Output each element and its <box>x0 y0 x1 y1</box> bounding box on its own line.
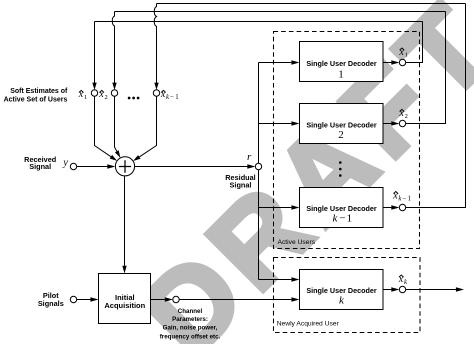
arrowhead y into summer <box>107 164 115 168</box>
svg-text:r: r <box>247 151 252 163</box>
arrowhead into decoder k (upper input) <box>291 277 299 281</box>
arrowhead into decoder k-1 <box>291 205 299 209</box>
arrowhead into node xhat2 <box>112 83 116 90</box>
arrowhead decoder2 output <box>391 121 399 125</box>
node terminal xhat2 <box>111 90 117 96</box>
terminal xhat1 output <box>399 59 405 65</box>
svg-text:Signal: Signal <box>29 162 51 171</box>
arrowhead into node r <box>247 164 255 168</box>
wire residual to decoder2 <box>259 123 292 125</box>
label received signal <box>24 155 56 171</box>
wire decoder k output <box>383 289 391 291</box>
terminal xhat2 output <box>399 120 405 126</box>
wire xhat1 down into summer <box>95 96 111 156</box>
wire initial acquisition output <box>151 299 165 301</box>
arrowhead decoder1 output <box>391 60 399 64</box>
svg-text:Signals: Signals <box>38 299 64 308</box>
node terminal xhat k-1 <box>153 90 159 96</box>
arrowhead decoder k output <box>391 287 399 291</box>
label xhat k-1 left <box>160 89 179 101</box>
wire summer to residual node r <box>135 166 248 168</box>
arrowhead xhat k-1 into summer <box>133 155 141 161</box>
svg-text:1: 1 <box>408 195 411 202</box>
label xhat1 left <box>78 89 88 101</box>
wire decoder2 output <box>383 123 391 125</box>
wire feedback top y=11.5 (decoder2 to xhat2) <box>115 11 446 13</box>
label xhat k-1 output <box>392 190 411 202</box>
svg-text:1: 1 <box>338 68 344 80</box>
summer (adder) circle <box>115 157 134 176</box>
wire residual trunk vertical <box>258 63 260 280</box>
label xhat1 output <box>398 47 407 59</box>
svg-text:1: 1 <box>175 94 178 101</box>
block single user decoder k <box>300 270 384 310</box>
svg-text:1: 1 <box>405 52 408 59</box>
wire xhat k-1 down into summer <box>139 96 156 157</box>
watermark DRAFT <box>122 0 474 344</box>
terminal pilot signals <box>70 296 76 302</box>
label soft estimates <box>4 88 68 104</box>
label block decoder k <box>306 286 377 307</box>
arrowhead into node xhat k-1 <box>154 83 158 90</box>
wire feedback top y=21 (decoder1 to xhat1) <box>95 21 423 23</box>
svg-text:Newly Acquired User: Newly Acquired User <box>277 320 340 327</box>
arrowhead into decoder1 <box>291 60 299 64</box>
wire vertical drop to xhat1 <box>94 22 96 84</box>
wire summer down to initial acquisition <box>124 176 126 266</box>
label block decoder 1 <box>306 59 377 80</box>
wire vertical drop to xhat k-1 with two hops <box>154 4 156 84</box>
svg-text:Signal: Signal <box>230 180 252 189</box>
node terminal r <box>255 163 261 169</box>
summer plus sign <box>119 160 131 172</box>
arrowhead xhat k final output <box>456 287 464 291</box>
dashed box newly acquired user <box>274 258 421 333</box>
arrowhead xhat2 into summer <box>115 150 121 158</box>
wire decoder1 output <box>383 62 391 64</box>
dashed box active users <box>274 32 420 249</box>
arrowhead into node xhat1 <box>92 83 96 90</box>
arrowhead pilot into initial acquisition <box>90 297 98 301</box>
wire xhat k final output <box>406 289 456 291</box>
svg-text:2: 2 <box>105 94 108 101</box>
label dots between estimates <box>128 97 140 100</box>
terminal xhat k output <box>399 286 405 292</box>
terminal y received signal <box>70 163 76 169</box>
wire pilot into initial acquisition <box>77 299 91 301</box>
arrowhead into decoder k (lower input) <box>291 297 299 301</box>
node terminal xhat1 <box>91 90 97 96</box>
svg-text:Soft Estimates of: Soft Estimates of <box>10 88 68 95</box>
wire residual to decoder1 <box>259 62 292 64</box>
svg-text:−: − <box>170 94 174 101</box>
wire feedback decoder k-1 <box>406 4 466 208</box>
wire vertical drop to xhat2 with hop <box>112 12 114 84</box>
arrowhead into initial acquisition <box>122 266 126 274</box>
svg-text:Active Users: Active Users <box>278 239 316 246</box>
block single user decoder k-1 <box>300 188 384 228</box>
svg-text:Single User Decoder: Single User Decoder <box>306 59 377 68</box>
wire y into summer <box>77 166 108 168</box>
label block decoder 2 <box>306 121 377 142</box>
svg-text:Active Set of Users: Active Set of Users <box>4 96 68 103</box>
label xhat2 left <box>98 89 108 101</box>
svg-text:Channel: Channel <box>178 308 203 315</box>
label block initial acquisition <box>104 293 145 310</box>
arrowhead into channel-parameters node <box>165 297 173 301</box>
wire feedback decoder1 <box>406 22 423 63</box>
label pilot signals <box>38 291 64 308</box>
arrowhead decoder k-1 output <box>391 205 399 209</box>
block initial acquisition <box>99 274 151 324</box>
wire residual to decoder k <box>259 279 292 281</box>
wire xhat2 down into summer <box>115 96 117 151</box>
label block decoder k-1 <box>306 204 377 225</box>
label xhat k output <box>398 274 408 286</box>
svg-text:−: − <box>339 212 345 224</box>
svg-text:frequency offset etc.: frequency offset etc. <box>160 333 221 340</box>
svg-text:1: 1 <box>84 94 87 101</box>
label xhat2 output <box>398 108 407 120</box>
terminal channel parameters <box>173 296 179 302</box>
svg-text:Single User Decoder: Single User Decoder <box>306 286 377 295</box>
svg-text:Parameters:: Parameters: <box>172 316 208 323</box>
svg-text:y: y <box>62 158 68 169</box>
terminal xhat k-1 output <box>399 204 405 210</box>
label vertical dots between decoder2 and k-1 <box>339 161 342 177</box>
svg-text:1: 1 <box>347 212 353 224</box>
svg-text:Gain, noise power,: Gain, noise power, <box>163 325 218 332</box>
svg-text:−: − <box>402 195 406 202</box>
wire channel parameters to decoder k <box>179 299 291 301</box>
arrowhead xhat1 into summer <box>110 155 117 161</box>
svg-text:2: 2 <box>405 113 408 120</box>
label residual signal <box>225 173 255 190</box>
wire residual to decoder k-1 <box>259 207 292 209</box>
wire decoder k-1 output <box>383 207 391 209</box>
block single user decoder 2 <box>300 104 384 144</box>
svg-text:k: k <box>404 279 408 286</box>
wire feedback decoder2 <box>406 12 446 124</box>
block single user decoder 1 <box>300 42 384 82</box>
wire feedback top y=3 (decoder k-1 to xhat k-1) <box>157 3 466 5</box>
svg-text:Acquisition: Acquisition <box>104 301 145 310</box>
svg-text:2: 2 <box>338 129 344 141</box>
label channel parameters <box>160 308 221 340</box>
arrowhead into decoder2 <box>291 121 299 125</box>
